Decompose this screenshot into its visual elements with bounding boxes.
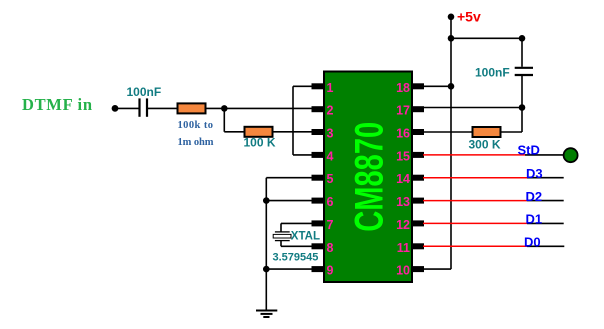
node C2 top corner <box>519 35 526 42</box>
capacitor C1 100nF <box>140 98 148 116</box>
wire pin16 to R3 <box>423 131 473 133</box>
svg-text:12: 12 <box>396 218 410 232</box>
svg-text:3: 3 <box>327 127 334 141</box>
wire StD black <box>525 154 564 156</box>
wire input terminal to C1 <box>115 107 139 109</box>
svg-text:D2: D2 <box>526 189 543 204</box>
svg-text:1m ohm: 1m ohm <box>178 137 214 148</box>
svg-text:14: 14 <box>396 172 410 186</box>
resistor R1 100k-1m <box>178 103 206 113</box>
value label 100k to 1m ohm <box>178 120 214 148</box>
svg-text:5: 5 <box>327 172 334 186</box>
wire D1 black <box>527 222 564 224</box>
svg-text:D0: D0 <box>524 235 541 250</box>
crystal X1 <box>273 223 314 246</box>
capacitor C2 100nF <box>515 68 533 75</box>
node input terminal <box>112 105 119 112</box>
svg-text:100nF: 100nF <box>127 85 162 99</box>
svg-text:11: 11 <box>397 241 410 255</box>
svg-text:4: 4 <box>327 149 334 163</box>
wire D3 black <box>527 177 564 179</box>
svg-text:100 K: 100 K <box>244 136 276 150</box>
wire bus pin5-pin6-pin9 to ground <box>266 178 314 311</box>
svg-text:9: 9 <box>327 264 334 278</box>
wire D3 red <box>423 177 527 179</box>
svg-text:+5v: +5v <box>457 9 481 25</box>
svg-text:6: 6 <box>327 195 334 209</box>
pin stubs right <box>412 83 425 272</box>
wire node A to R2 <box>224 131 244 133</box>
wire pin10 to rail <box>423 268 451 270</box>
wire R2 to pin3 <box>273 131 315 133</box>
wire R3 up to pin17 node <box>501 108 523 133</box>
svg-text:DTMF in: DTMF in <box>22 95 92 114</box>
node pin18 junction <box>448 83 455 90</box>
svg-text:300 K: 300 K <box>469 138 501 152</box>
wire node A down <box>223 108 225 131</box>
wire pin17 <box>423 107 522 109</box>
LED StD indicator <box>564 148 578 162</box>
svg-text:StD: StD <box>518 142 540 157</box>
svg-text:XTAL: XTAL <box>291 231 320 243</box>
svg-text:8: 8 <box>327 241 334 255</box>
wire D2 black <box>527 200 564 202</box>
svg-text:16: 16 <box>396 127 410 141</box>
pin numbers left 1-9 <box>327 81 334 278</box>
wire bus pin1-pin4 <box>293 86 314 155</box>
svg-text:15: 15 <box>396 149 410 163</box>
wire C1 to R1 <box>148 107 177 109</box>
svg-text:CM8870: CM8870 <box>348 122 392 232</box>
resistor R2 100K <box>245 127 273 137</box>
wire D0 red <box>423 245 527 247</box>
pin stubs left <box>312 83 325 272</box>
svg-text:17: 17 <box>396 104 410 118</box>
svg-text:D1: D1 <box>526 212 543 227</box>
svg-text:D3: D3 <box>526 166 543 181</box>
svg-text:1: 1 <box>327 81 334 95</box>
svg-text:7: 7 <box>327 218 334 232</box>
node pin6 junction <box>263 197 270 204</box>
node +5v branch junction <box>448 35 455 42</box>
wire D2 red <box>423 200 527 202</box>
svg-text:13: 13 <box>396 195 410 209</box>
wire branch to C2 <box>451 37 522 39</box>
node pin9 junction <box>263 266 270 273</box>
svg-text:3.579545: 3.579545 <box>273 252 319 264</box>
wire node A to pin2 <box>224 107 314 109</box>
svg-text:18: 18 <box>396 81 410 95</box>
resistor R3 300K <box>473 127 501 137</box>
wire D1 red <box>423 222 527 224</box>
node +5v terminal <box>448 13 455 20</box>
wire R1 to node A <box>206 107 225 109</box>
wire StD red <box>423 154 525 156</box>
svg-text:10: 10 <box>396 264 410 278</box>
pin numbers right 18-10 <box>396 81 410 278</box>
wire pin18 to rail <box>423 85 451 87</box>
wire D0 black <box>527 245 564 247</box>
wire C2 to pin17 node <box>521 76 523 108</box>
wire +5v rail vertical <box>450 17 452 269</box>
node pin17 junction <box>519 104 526 111</box>
svg-text:100nF: 100nF <box>475 66 510 80</box>
svg-text:2: 2 <box>327 104 334 118</box>
ground <box>256 311 277 318</box>
svg-text:100k to: 100k to <box>178 120 214 131</box>
node A junction <box>221 105 228 112</box>
wire down to C2 <box>521 38 523 67</box>
op IC U1 CM8870 body <box>324 72 412 283</box>
